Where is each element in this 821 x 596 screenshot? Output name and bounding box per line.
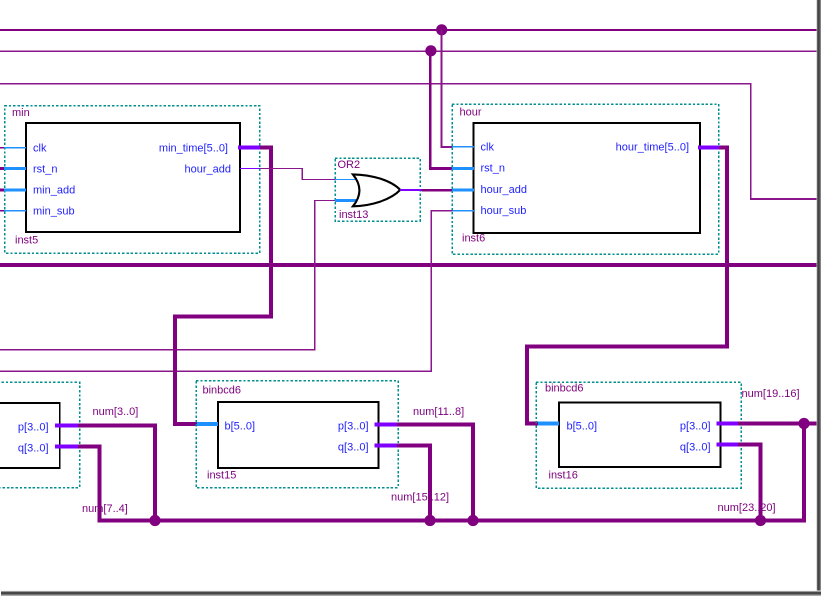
wire hour rst_n branch vertical xyxy=(429,51,432,170)
svg-text:hour_sub: hour_sub xyxy=(481,205,527,217)
wire inst16 p purple to edge xyxy=(738,422,821,426)
pin stub min min_sub xyxy=(0,210,5,211)
node junction rst_n xyxy=(425,45,436,56)
window right border xyxy=(816,0,821,596)
wire hour clk branch horizontal xyxy=(441,146,453,148)
wire bus num y265 xyxy=(0,263,821,267)
svg-text:p[3..0]: p[3..0] xyxy=(338,421,369,433)
svg-text:binbcd6: binbcd6 xyxy=(545,383,584,395)
wire hour_time stub violet xyxy=(698,145,719,149)
wire inst16 q purple xyxy=(738,443,763,447)
wire net y199 to right edge xyxy=(750,198,821,200)
wire min_time horizontal y316.5 xyxy=(173,315,273,319)
wire left q vertical x99.5 xyxy=(98,445,102,523)
svg-text:q[3..0]: q[3..0] xyxy=(680,442,711,454)
pin stub min min_add xyxy=(0,189,5,192)
svg-text:clk: clk xyxy=(33,143,47,155)
svg-text:min_add: min_add xyxy=(33,185,75,197)
wire min hour_add vertical x302 xyxy=(302,168,303,180)
svg-text:b[5..0]: b[5..0] xyxy=(225,421,256,433)
gate or2 body xyxy=(353,174,400,206)
pin stub or2 input2 xyxy=(335,199,357,202)
symbol min (inst5) dashed boundary xyxy=(5,106,260,254)
wire inst16 p vertical x804 xyxy=(802,422,806,523)
svg-text:inst13: inst13 xyxy=(339,209,368,221)
wire min hour_add to or2 xyxy=(260,168,303,169)
svg-text:num[7..4]: num[7..4] xyxy=(82,503,128,515)
pin stub hour clk xyxy=(452,146,474,147)
node junction inst16 p xyxy=(798,418,809,429)
svg-text:p[3..0]: p[3..0] xyxy=(18,422,49,434)
wire bus num y520.5 xyxy=(98,519,807,523)
wire hour_sub lead xyxy=(430,210,452,211)
symbol binbcd6 inst16 dashed boundary xyxy=(536,382,741,488)
wire min hour_add stub violet xyxy=(240,168,260,169)
wire hour_sub vertical x431 xyxy=(430,210,431,372)
pin stub inst16 b blue xyxy=(538,422,559,426)
svg-text:hour: hour xyxy=(460,107,482,119)
svg-text:min: min xyxy=(12,107,30,119)
wire or2 input2 horizontal to gate xyxy=(314,200,336,201)
wire inst16 p stub violet xyxy=(717,422,739,426)
wire or2 output violet stub xyxy=(400,189,422,191)
svg-text:OR2: OR2 xyxy=(338,159,361,171)
svg-text:num[3..0]: num[3..0] xyxy=(93,406,139,418)
node junction clk xyxy=(436,24,447,35)
svg-text:inst6: inst6 xyxy=(462,233,485,245)
svg-text:rst_n: rst_n xyxy=(481,163,505,175)
svg-text:clk: clk xyxy=(481,142,495,154)
node junction inst16 q on bus xyxy=(755,515,766,526)
svg-text:rst_n: rst_n xyxy=(33,164,57,176)
node junction left p on bus xyxy=(149,515,160,526)
symbol binbcd6 left partial body xyxy=(0,403,60,468)
symbol hour (inst6) dashed boundary xyxy=(452,104,719,254)
symbol binbcd6 inst16 body xyxy=(559,403,721,468)
wire clk top bus xyxy=(0,29,821,31)
node junction inst15 p on bus xyxy=(467,515,478,526)
symbol binbcd6 inst15 dashed boundary xyxy=(196,381,398,488)
pin stub min clk xyxy=(0,147,5,148)
wire left p vertical x155 xyxy=(153,424,157,523)
wire hour rst_n branch horizontal xyxy=(429,167,452,170)
svg-text:num[19..16]: num[19..16] xyxy=(742,388,800,400)
symbol hour body xyxy=(474,123,701,233)
wire hour clk branch vertical xyxy=(441,30,443,147)
symbol binbcd6 left partial dashed boundary xyxy=(0,382,80,488)
wire left p stub violet xyxy=(55,424,78,428)
svg-text:inst15: inst15 xyxy=(207,470,236,482)
wire inst15 p stub violet xyxy=(375,423,398,427)
wire min_time stub violet xyxy=(238,146,260,150)
pin stub hour hour_sub xyxy=(452,210,474,211)
pin stub or2 input1 xyxy=(335,179,357,180)
wire hour_time horizontal y346.5 xyxy=(525,345,729,349)
wire left q purple xyxy=(78,445,102,449)
wire min_time purple to corner xyxy=(260,146,273,150)
wire min_time horizontal into b xyxy=(173,422,200,426)
symbol min body xyxy=(26,123,240,232)
svg-text:min_time[5..0]: min_time[5..0] xyxy=(159,143,228,155)
symbol binbcd6 inst15 body xyxy=(218,402,379,468)
window bottom border xyxy=(1,591,821,596)
wire net x751 vertical xyxy=(750,83,752,199)
wire min_time vertical x271 xyxy=(269,146,273,319)
svg-text:num[15..12]: num[15..12] xyxy=(391,492,449,504)
svg-text:p[3..0]: p[3..0] xyxy=(680,421,711,433)
wire or2 output to hour_add xyxy=(422,189,453,191)
wire hour_time vertical x727 xyxy=(725,145,729,348)
wire net y84 horizontal xyxy=(0,83,752,85)
wire rst_n bus xyxy=(0,51,821,52)
wire hour_time vertical x527 xyxy=(525,345,529,426)
svg-text:inst16: inst16 xyxy=(549,470,578,482)
svg-text:min_sub: min_sub xyxy=(33,206,75,218)
node junction inst15 q on bus xyxy=(424,515,435,526)
wire left q stub violet xyxy=(55,445,78,449)
svg-text:num[11..8]: num[11..8] xyxy=(413,406,464,418)
wire hour_time purple xyxy=(719,145,729,149)
svg-text:hour_add: hour_add xyxy=(185,164,232,176)
pin stub hour hour_add xyxy=(452,189,474,192)
wire hour_time into b inst16 xyxy=(525,422,538,426)
wire or2 input2 long line y349.5 xyxy=(0,349,316,350)
pin stub hour rst_n xyxy=(452,167,474,170)
svg-text:hour_add: hour_add xyxy=(481,184,528,196)
svg-text:q[3..0]: q[3..0] xyxy=(338,442,369,454)
svg-text:num[23..20]: num[23..20] xyxy=(718,502,776,514)
svg-text:q[3..0]: q[3..0] xyxy=(18,443,49,455)
pin stub min rst_n xyxy=(0,167,5,170)
wire inst16 q stub violet xyxy=(717,443,739,447)
wire inst16 q vertical x760.5 xyxy=(759,443,763,523)
wire inst15 p vertical x473 xyxy=(471,423,475,521)
pin stub inst15 b blue xyxy=(197,422,218,426)
svg-text:b[5..0]: b[5..0] xyxy=(567,421,598,433)
svg-text:inst5: inst5 xyxy=(15,235,38,247)
wire min_time vertical x175 xyxy=(173,315,177,427)
svg-text:binbcd6: binbcd6 xyxy=(203,385,242,397)
wire inst15 q purple xyxy=(397,444,432,448)
symbol OR2 (inst13) dashed boundary xyxy=(335,158,420,221)
wire left p purple xyxy=(78,424,157,428)
svg-text:hour_time[5..0]: hour_time[5..0] xyxy=(616,142,689,154)
wire or2 input2 vertical x314.5 xyxy=(314,200,315,350)
wire min hour_add into or2 input1 xyxy=(302,179,336,180)
wire inst15 q stub violet xyxy=(375,444,398,448)
wire inst15 p purple xyxy=(397,423,475,427)
wire hour_sub long line y371 xyxy=(0,370,432,371)
wire inst15 q vertical x430 xyxy=(428,444,432,521)
